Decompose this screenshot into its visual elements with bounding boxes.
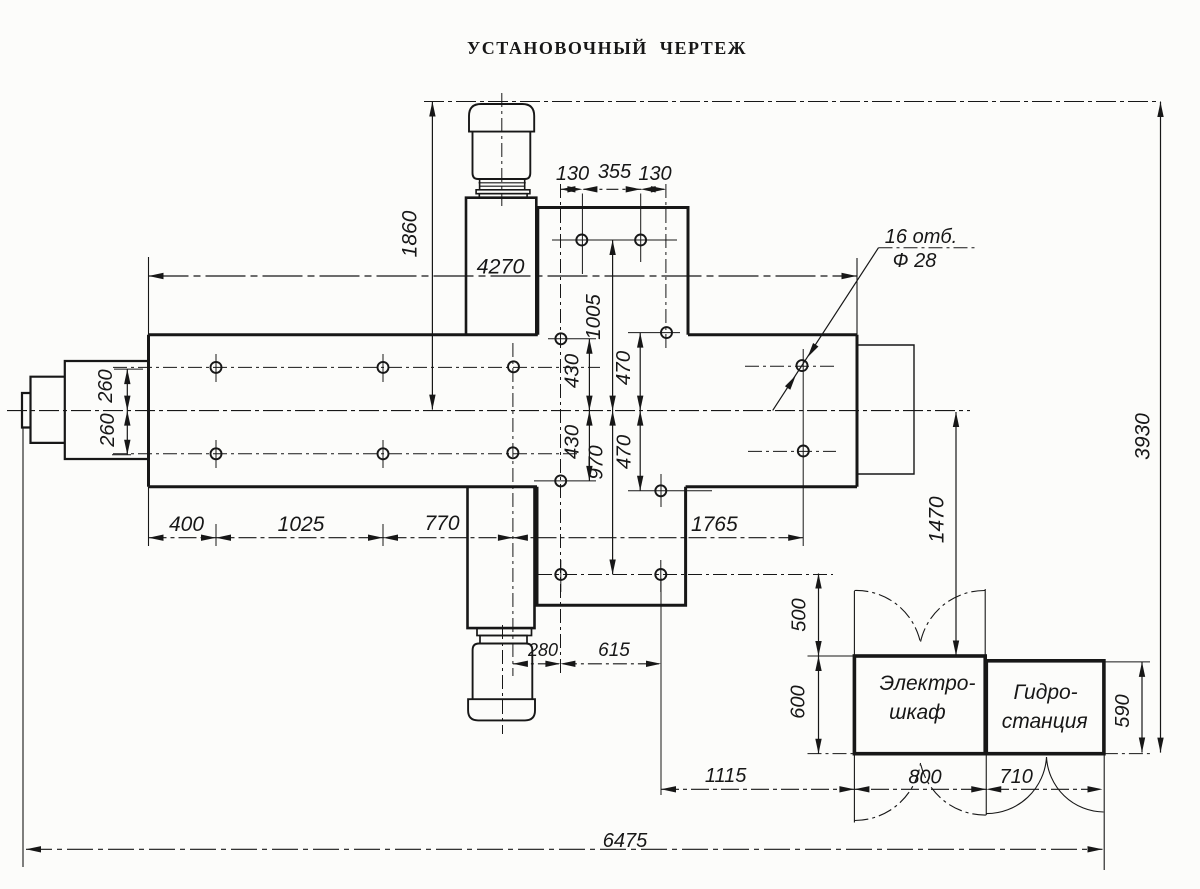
svg-text:1115: 1115 — [705, 765, 747, 787]
svg-text:16 отб.: 16 отб. — [885, 226, 957, 248]
svg-text:130: 130 — [556, 163, 589, 185]
svg-text:470: 470 — [612, 350, 635, 385]
svg-text:Электро-: Электро- — [880, 672, 976, 695]
svg-text:770: 770 — [424, 512, 459, 535]
svg-text:1860: 1860 — [399, 210, 422, 257]
svg-text:Ф 28: Ф 28 — [893, 250, 937, 272]
svg-text:500: 500 — [788, 598, 810, 631]
svg-text:600: 600 — [788, 685, 810, 718]
svg-text:970: 970 — [584, 445, 607, 480]
svg-text:6475: 6475 — [603, 830, 648, 852]
svg-text:3930: 3930 — [1132, 413, 1155, 460]
svg-text:800: 800 — [908, 767, 941, 789]
svg-text:280: 280 — [527, 640, 558, 660]
svg-text:станция: станция — [1002, 710, 1088, 733]
svg-text:130: 130 — [638, 163, 671, 185]
svg-text:шкаф: шкаф — [889, 701, 946, 724]
svg-text:1765: 1765 — [691, 513, 738, 536]
svg-text:590: 590 — [1112, 694, 1134, 727]
svg-text:355: 355 — [598, 161, 632, 183]
svg-text:1470: 1470 — [925, 496, 948, 543]
svg-text:430: 430 — [560, 353, 583, 388]
svg-text:1005: 1005 — [582, 294, 605, 340]
svg-text:4270: 4270 — [477, 255, 525, 279]
svg-text:УСТАНОВОЧНЫЙ ЧЕРТЕЖ: УСТАНОВОЧНЫЙ ЧЕРТЕЖ — [467, 37, 747, 58]
svg-text:710: 710 — [1000, 766, 1033, 788]
svg-text:470: 470 — [612, 434, 635, 469]
svg-text:Гидро-: Гидро- — [1014, 681, 1078, 704]
svg-text:1025: 1025 — [278, 513, 325, 536]
svg-text:430: 430 — [560, 424, 583, 459]
svg-text:260: 260 — [97, 413, 119, 447]
svg-text:400: 400 — [169, 513, 204, 536]
svg-text:615: 615 — [598, 640, 630, 661]
svg-text:260: 260 — [95, 369, 117, 403]
